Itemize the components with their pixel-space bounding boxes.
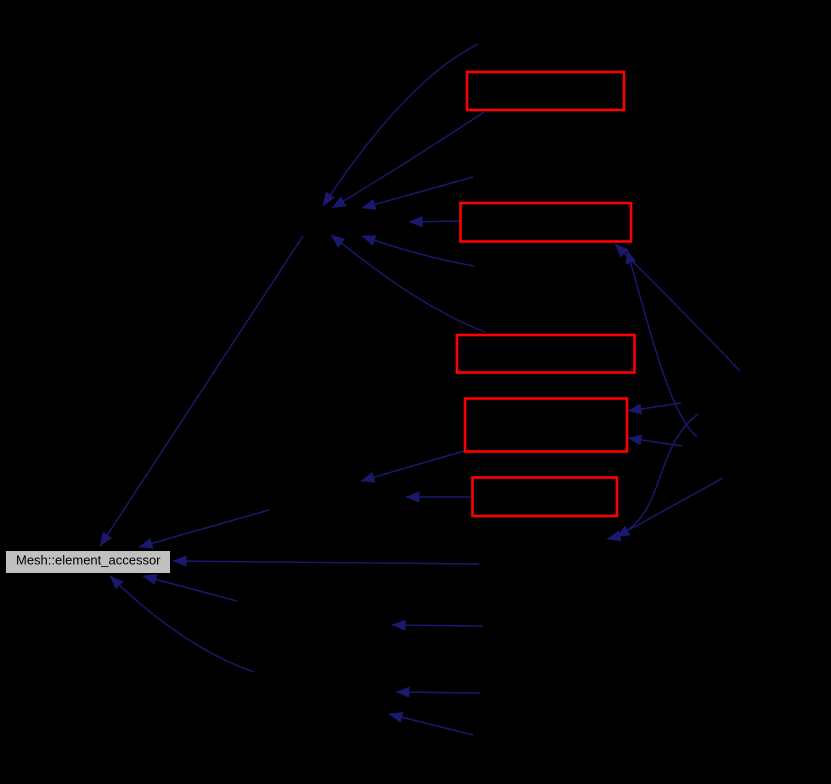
edge E15: invisible node to invisible node N6 [396, 692, 480, 693]
node box2 (red) [461, 203, 632, 242]
svg-text:Mesh::element_accessor: Mesh::element_accessor [16, 553, 161, 568]
node box1 (red) [467, 72, 624, 110]
edge E7: node X to Mesh::element_accessor [100, 236, 303, 546]
edge E3: invisible node T2 to node X [362, 177, 473, 208]
edge E14: invisible node to invisible node N5 [392, 625, 483, 626]
edge R3: right invisible node to bottom invisible node [616, 478, 723, 537]
edge E11: box4 bottom-left to invisible node M2 [361, 451, 464, 481]
edge R1: right invisible node to box2 corner [615, 244, 740, 371]
node box5 (red) [473, 478, 618, 517]
edge EB4b: right invisible node to box4 right edge lower [628, 438, 682, 446]
node box4 (red) [465, 399, 627, 452]
edge P: lower right invisible node to box2 corner [627, 250, 697, 437]
edge E12: box5 left edge to invisible node M2 [406, 496, 472, 498]
edge E2: box1 bottom-left to node X [332, 112, 484, 208]
node box3 (red) [457, 335, 635, 373]
edge E13: invisible node N6 to Mesh::element_accessor bottom [110, 576, 254, 672]
edge E5: invisible node T3 to node X bottom [362, 236, 474, 266]
edge E10a: invisible node M2 to Mesh::element_accessor top [139, 510, 269, 547]
edge E4: box2 left edge to node X right edge [409, 221, 460, 222]
edge E10b: invisible node N5 to Mesh::element_accessor bottom [143, 576, 237, 601]
edge Q: right invisible node to bottom invisible node [607, 414, 698, 539]
edge E1: top invisible node to node X [323, 44, 478, 206]
edge E16: invisible node to invisible node N6 [389, 714, 473, 735]
edge E6: box3 top edge to node X bottom [331, 235, 485, 332]
edge E9: invisible node to Mesh::element_accessor right edge [173, 561, 479, 564]
node Mesh::element_accessor [6, 551, 170, 573]
edge EB4a: right invisible node to box4 right edge upper [628, 403, 681, 411]
